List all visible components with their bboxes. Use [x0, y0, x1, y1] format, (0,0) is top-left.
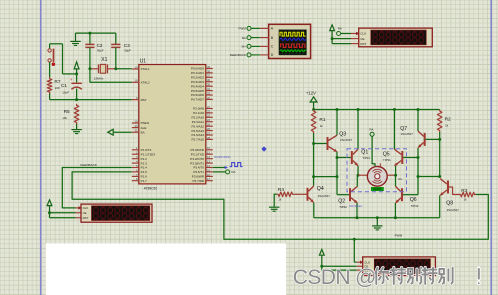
svg-text:Q1: Q1 [361, 150, 368, 156]
U1 right pins [190, 65, 213, 183]
svg-text:P2.6/A14: P2.6/A14 [191, 133, 204, 137]
power arrow A3 [319, 249, 324, 266]
svg-text:P2.4/A12: P2.4/A12 [191, 124, 204, 128]
svg-text:RA: RA [338, 27, 342, 31]
capacitor C3 [111, 44, 120, 47]
node Q7 emitter branch [417, 175, 420, 178]
wire Q2 emitter down [356, 203, 358, 218]
wire motor gnd stem [376, 218, 378, 226]
svg-text:P1.3: P1.3 [141, 161, 148, 165]
svg-text:CE: CE [360, 37, 364, 41]
node crystal left [88, 67, 91, 70]
origin marker diamond [261, 146, 266, 151]
svg-text:FEEDBACK: FEEDBACK [230, 53, 246, 57]
svg-text:23: 23 [207, 114, 211, 118]
wire Q1 emitter down [357, 166, 359, 175]
svg-text:P1.7: P1.7 [141, 179, 148, 183]
svg-text:ALE: ALE [141, 126, 147, 130]
scope channel labels [271, 27, 274, 58]
svg-text:TIP32: TIP32 [339, 205, 347, 209]
ground G1 [70, 33, 80, 45]
dc motor M [367, 163, 387, 186]
svg-text:P2.2/A10: P2.2/A10 [191, 115, 204, 119]
wire Q2 collector up [356, 175, 358, 186]
motor green label [371, 187, 383, 190]
wire Q2 base [337, 194, 349, 196]
wire Q3 base [314, 143, 327, 145]
wire top rail [314, 109, 440, 111]
svg-text:30pF: 30pF [124, 49, 131, 53]
svg-text:DC Motor: DC Motor [350, 204, 363, 208]
svg-text:220: 220 [55, 86, 60, 90]
svg-text:P2.7/A15: P2.7/A15 [191, 138, 204, 142]
power arrow +12V [310, 97, 317, 110]
svg-text:P1.4: P1.4 [141, 166, 148, 170]
svg-text:CE: CE [83, 211, 87, 215]
node display2 CE [48, 211, 51, 214]
transistor Q5 [394, 149, 403, 166]
svg-text:Q2: Q2 [338, 199, 345, 205]
svg-text:P2.3/A11: P2.3/A11 [192, 120, 205, 124]
wire Q4 emitter down [313, 203, 315, 218]
svg-text:PWM: PWM [239, 27, 247, 31]
svg-text:Q5: Q5 [383, 152, 390, 158]
svg-text:M+: M+ [398, 177, 402, 181]
svg-text:30pF: 30pF [97, 49, 104, 53]
node bottom Q6e [394, 216, 397, 219]
capacitor C2 [85, 44, 94, 47]
node Q8 collector [438, 175, 441, 178]
wire R4 right to Q4 base [294, 193, 307, 195]
svg-text:FEEDBACK: FEEDBACK [80, 163, 98, 167]
sheet border left [40, 0, 42, 295]
node rail Q3 [336, 108, 339, 111]
svg-text:R3: R3 [461, 188, 467, 194]
node motor right [394, 174, 397, 177]
wire P3.4 to clock [213, 167, 227, 169]
node rail +12V [312, 108, 315, 111]
transistor Q1 [351, 149, 358, 166]
transistor Q4 [307, 186, 314, 203]
wire Q8 emitter down [439, 195, 441, 217]
transistor Q3 [327, 135, 338, 152]
wire R2 node down [439, 139, 441, 176]
node R2/Q7 base [438, 138, 441, 141]
wire Q5 collector up [393, 110, 395, 150]
svg-text:2SC2547: 2SC2547 [318, 194, 330, 198]
svg-text:M+: M+ [242, 45, 246, 49]
wire Q3 collector up [336, 110, 338, 136]
wire C3 top lead [115, 33, 117, 44]
svg-text:22: 22 [207, 109, 211, 113]
ground G3 [269, 207, 279, 211]
svg-text:11: 11 [207, 151, 210, 155]
scope trace D green [280, 50, 306, 52]
svg-text:31: 31 [134, 129, 138, 133]
node display1 CE [331, 37, 334, 40]
svg-text:P0.4/AD4: P0.4/AD4 [191, 84, 204, 88]
wire gnd to C2/C3 top [76, 32, 116, 34]
watermark CSDN @... [293, 266, 480, 289]
svg-text:13: 13 [207, 160, 211, 164]
node bottom Q2e [356, 216, 359, 219]
svg-text:C2: C2 [97, 43, 103, 48]
wire RA to motor top [372, 136, 375, 166]
wire display2 CLK stub [76, 207, 82, 209]
svg-text:TIP31: TIP31 [383, 158, 391, 162]
svg-text:P3.3/INT1: P3.3/INT1 [190, 161, 204, 165]
svg-text:P3.0/RXD: P3.0/RXD [190, 148, 204, 152]
oscilloscope body [269, 24, 311, 58]
node VCC/C1 [75, 72, 78, 75]
svg-text:29: 29 [134, 119, 138, 123]
svg-text:RA: RA [369, 128, 373, 132]
selection box (dashed) [347, 149, 407, 192]
node rail Q5 [393, 108, 396, 111]
svg-text:1k: 1k [278, 197, 282, 201]
display DS3 (bottom right) [360, 257, 435, 276]
wire C1 bottom lead [76, 89, 78, 100]
resistor R4 [277, 192, 294, 197]
svg-text:P0.0/AD0: P0.0/AD0 [191, 67, 204, 71]
svg-text:CLK: CLK [83, 206, 89, 210]
svg-text:30: 30 [134, 124, 138, 128]
svg-text:21: 21 [207, 105, 211, 109]
svg-text:1k: 1k [445, 124, 449, 128]
node Q5 base tap [417, 156, 420, 159]
svg-text:P3.5/T1: P3.5/T1 [193, 170, 204, 174]
svg-text:CLK: CLK [360, 32, 366, 36]
svg-text:2SC2547: 2SC2547 [401, 132, 413, 136]
scope trace A yellow [280, 32, 306, 36]
svg-text:C3: C3 [124, 43, 130, 48]
svg-text:Q8: Q8 [446, 201, 453, 207]
svg-text:R1: R1 [319, 117, 325, 123]
push button [48, 49, 55, 66]
wire Q5/Q6 base vertical [417, 148, 419, 195]
svg-text:R2: R2 [445, 117, 451, 123]
svg-text:R5: R5 [64, 109, 70, 115]
wire C2 bottom lead [89, 48, 91, 69]
clock generator on P3.4 [225, 163, 243, 169]
wire P3.5 to RA [213, 171, 226, 173]
wire button bottom to R7 [49, 62, 51, 77]
svg-text:U1(P3.4/T0): U1(P3.4/T0) [214, 155, 230, 159]
svg-text:TIP31: TIP31 [362, 156, 370, 160]
svg-text:10uF: 10uF [62, 91, 69, 95]
svg-text:P3.1/TXD: P3.1/TXD [191, 152, 205, 156]
ground G4 [372, 226, 382, 230]
node rail Q7 [417, 108, 420, 111]
svg-text:U1: U1 [140, 59, 147, 65]
svg-text:Q3: Q3 [339, 132, 346, 138]
wire rail to Q3e vertical [314, 176, 337, 178]
svg-text:P1.1/T2EX: P1.1/T2EX [141, 152, 156, 156]
wire Q6 emitter down [394, 203, 396, 218]
wire to display3 RST [322, 266, 363, 270]
node bottom motor gnd [376, 216, 379, 219]
power +5V arrow A1 [74, 62, 79, 74]
svg-text:RA: RA [242, 36, 246, 40]
svg-text:34: 34 [207, 87, 211, 91]
wire Q3 emitter down [336, 152, 338, 195]
wire left rail [313, 133, 315, 186]
wire to display3 CE [322, 265, 363, 267]
sheet border right [490, 0, 492, 295]
wire PWM net [72, 172, 488, 239]
resistor R1 [311, 110, 316, 134]
svg-text:27: 27 [207, 131, 211, 135]
svg-text:32: 32 [207, 96, 211, 100]
resistor R7 [47, 77, 52, 93]
svg-text:R4: R4 [278, 187, 284, 193]
svg-text:RST: RST [141, 98, 147, 102]
svg-text:24: 24 [207, 118, 211, 122]
node R1/Q3 base [312, 142, 315, 145]
wire Q7e to R2 bottom [418, 176, 440, 178]
svg-text:18: 18 [134, 79, 138, 83]
capacitor C1 polarized [70, 77, 82, 89]
svg-text:AT89C52: AT89C52 [144, 187, 157, 191]
svg-text:RA: RA [231, 170, 235, 174]
wire to XTAL2 [90, 69, 132, 83]
svg-text:P0.3/AD3: P0.3/AD3 [191, 80, 204, 84]
svg-text:P2.0/A8: P2.0/A8 [193, 107, 204, 111]
wire PWM to display3 CLK [354, 239, 362, 262]
display DS1 (top right) [356, 28, 432, 47]
wire crystal to XTAL1 [116, 68, 132, 70]
svg-text:RST: RST [360, 42, 366, 46]
svg-text:X1: X1 [101, 57, 107, 63]
svg-text:C1: C1 [61, 83, 67, 89]
svg-text:28: 28 [207, 136, 211, 140]
node motor left [357, 174, 360, 177]
resistor R5 [74, 104, 79, 124]
svg-text:Q7: Q7 [400, 126, 407, 132]
svg-text:P1.2: P1.2 [141, 157, 148, 161]
white overlay rectangle [46, 243, 286, 295]
svg-text:+12V: +12V [306, 91, 316, 96]
U1 left pins [132, 65, 156, 182]
transistor Q6 [396, 186, 404, 203]
svg-text:P0.1/AD1: P0.1/AD1 [191, 71, 204, 75]
wire C3 bottom lead [115, 48, 117, 69]
svg-text:25: 25 [207, 123, 211, 127]
wire to display2 CE [50, 212, 82, 214]
svg-text:37: 37 [207, 74, 211, 78]
svg-text:PSEN: PSEN [141, 121, 149, 125]
scope trace B blue [280, 38, 306, 40]
op chip body U1 [139, 65, 206, 184]
resistor R3 [459, 192, 476, 197]
svg-text:38: 38 [207, 69, 211, 73]
svg-text:33: 33 [207, 91, 211, 95]
wire Q1 base [337, 157, 351, 159]
wire motor left [358, 174, 367, 176]
resistor R2 [437, 110, 442, 133]
node display3 CE [320, 265, 323, 268]
svg-text:2SC2547: 2SC2547 [447, 208, 459, 212]
wire C2 top lead [89, 33, 91, 44]
scope trace C red [281, 44, 306, 47]
svg-text:TIP32: TIP32 [411, 204, 419, 208]
wire button top [50, 44, 77, 74]
svg-text:P2.5/A13: P2.5/A13 [191, 129, 204, 133]
wire FEEDBACK net [62, 168, 132, 208]
svg-text:RST: RST [83, 216, 89, 220]
transistor Q2 [349, 186, 357, 203]
node C2 top [88, 32, 91, 35]
wire Q5 base [403, 157, 418, 159]
wire R4 left to ground [274, 194, 276, 207]
wire Q6 base [403, 194, 418, 196]
node left rail branch [312, 175, 315, 178]
svg-text:12: 12 [207, 155, 211, 159]
power arrow EA (left) [108, 129, 132, 135]
transistor Q7 [418, 131, 426, 148]
wire Q1 collector up [357, 110, 359, 150]
node RST/R5 [75, 98, 78, 101]
wire R5 to ground [76, 124, 78, 129]
svg-text:19: 19 [134, 65, 138, 69]
svg-text:P0.2/AD2: P0.2/AD2 [191, 75, 204, 79]
svg-text:36: 36 [207, 78, 211, 82]
node Q1 base tap [336, 156, 339, 159]
svg-text:P1.5: P1.5 [141, 170, 148, 174]
svg-text:17: 17 [207, 177, 211, 181]
svg-text:P2.1/A9: P2.1/A9 [193, 111, 204, 115]
wire to display1 RST [332, 39, 359, 44]
power arrow A4 [330, 25, 335, 39]
wire R7 bottom to RST [50, 94, 132, 100]
svg-text:CSDN @: CSDN @ [293, 266, 376, 289]
svg-text:P3.4/T0: P3.4/T0 [193, 166, 204, 170]
wire Q8 base bend [449, 187, 459, 195]
oscilloscope screen [279, 30, 306, 55]
crystal X1 [90, 64, 116, 73]
node Q3e/branch [336, 175, 339, 178]
svg-text:P0.5/AD5: P0.5/AD5 [191, 89, 204, 93]
terminal RA at U1 [226, 170, 230, 174]
wire to display2 RST [50, 213, 82, 218]
wire C1 top lead [76, 74, 78, 83]
wire Q6 collector up [395, 175, 397, 186]
terminal RA bridge [369, 128, 374, 137]
svg-text:XTAL2: XTAL2 [141, 80, 150, 84]
wire Q7 collector up [417, 110, 419, 132]
power arrow A2 [47, 200, 52, 213]
svg-text:12MHz: 12MHz [94, 76, 104, 80]
wire R2 bottom [439, 132, 441, 139]
svg-text:P0.6/AD6: P0.6/AD6 [191, 93, 204, 97]
svg-text:P0.7/AD7: P0.7/AD7 [191, 98, 204, 102]
wire to display1 CE [332, 38, 359, 40]
svg-text:Q6: Q6 [410, 197, 417, 203]
wire Q7 base [426, 138, 440, 140]
svg-text:10k: 10k [62, 116, 67, 120]
svg-text:Q4: Q4 [317, 186, 324, 192]
node crystal right [114, 67, 117, 70]
node rail Q1 [357, 108, 360, 111]
svg-text:P3.7/RD: P3.7/RD [192, 179, 204, 183]
svg-text:XTAL1: XTAL1 [141, 67, 150, 71]
wire motor right [387, 174, 395, 176]
display DS2 (bottom left) [78, 204, 152, 222]
svg-text:P3.2/INT0: P3.2/INT0 [190, 157, 204, 161]
svg-text:14: 14 [207, 164, 211, 168]
wire bottom rail [314, 217, 440, 219]
scope input terminals PWM/RA/M+/FEEDBACK [230, 26, 269, 57]
svg-text:39: 39 [207, 65, 211, 69]
wire Q5 emitter down [395, 166, 397, 175]
svg-text:P1.0/T2: P1.0/T2 [141, 148, 152, 152]
wire RA to CLK [341, 33, 359, 35]
svg-text:10: 10 [207, 146, 211, 150]
svg-text:15: 15 [207, 168, 211, 172]
terminal RA top [337, 27, 342, 36]
svg-text:PWM: PWM [395, 234, 403, 238]
svg-text:2SC2547: 2SC2547 [340, 138, 352, 142]
ground G2 [71, 130, 81, 134]
transistor Q8 [440, 179, 449, 196]
node PWM to display3 [353, 238, 356, 241]
svg-text:R7: R7 [54, 79, 60, 85]
svg-text:35: 35 [207, 83, 211, 87]
svg-text:26: 26 [207, 127, 211, 131]
